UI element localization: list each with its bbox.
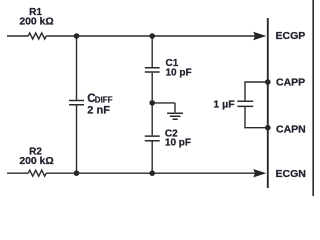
svg-text:200 kΩ: 200 kΩ [19,156,53,167]
svg-text:200 kΩ: 200 kΩ [19,17,53,28]
svg-text:2 nF: 2 nF [87,105,110,117]
svg-text:CAPN: CAPN [276,123,306,135]
svg-text:ECGN: ECGN [276,168,306,180]
svg-text:10 pF: 10 pF [165,137,191,148]
svg-text:DIFF: DIFF [95,95,113,104]
svg-text:CAPP: CAPP [276,77,305,89]
svg-text:1 µF: 1 µF [213,98,235,110]
svg-text:10 pF: 10 pF [166,68,192,79]
svg-text:ECGP: ECGP [276,30,306,42]
